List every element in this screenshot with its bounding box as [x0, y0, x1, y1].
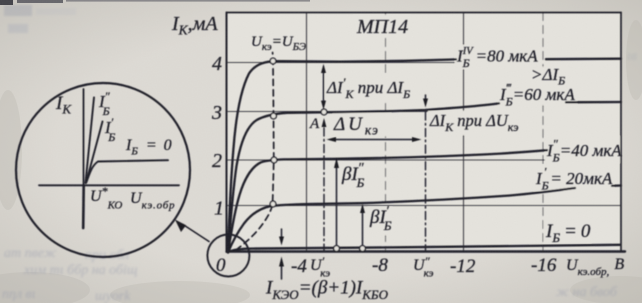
inset line Iб''	[86, 98, 95, 184]
marker circle base of бIб'	[360, 246, 366, 252]
gridline x=-16	[542, 13, 544, 252]
up arrow Iкэо below axis	[281, 266, 283, 279]
marker circle base of бIб''	[334, 246, 340, 252]
gridline x=-4	[306, 13, 308, 252]
axis frame right	[620, 13, 622, 252]
marker circle on 40мкА curve	[271, 157, 277, 163]
inset y axis	[83, 89, 85, 186]
scan top-edge marks	[0, 0, 13, 5]
magnifier big circle	[16, 83, 190, 257]
gridline y=2	[227, 159, 546, 161]
label background patches (interrupt gridlines)	[325, 15, 620, 243]
marker circle on 60мкА curve	[271, 113, 277, 119]
curve IБ'''=60мкА left part	[228, 103, 499, 252]
down arrow dIk at Uкэ''	[425, 95, 427, 100]
inset x axis	[39, 184, 179, 186]
curve IБ=0	[228, 245, 620, 252]
gridline y=4	[227, 62, 457, 64]
inset curve Iб=0	[87, 160, 169, 182]
pointer arrow from origin circle to magnifier	[183, 225, 209, 242]
marker circle on 20мкА curve	[270, 201, 276, 207]
arrowhead up to point A	[322, 118, 327, 127]
origin small circle	[207, 235, 249, 277]
arrow бIб' (up to 20мкА curve)	[362, 212, 364, 246]
axis frame top	[227, 12, 622, 14]
curve IБ'=20мкА right stub after label	[612, 184, 621, 187]
x axis	[227, 250, 626, 252]
dashed locus Uкэ=Uбэ	[236, 53, 274, 251]
inset line Iб'	[86, 122, 103, 184]
line at Uкэ' (dash-dot)	[323, 128, 325, 251]
y axis	[226, 13, 228, 253]
marker circle point A	[321, 109, 327, 115]
curve IБ''=40мкА	[228, 150, 547, 252]
gridline y=3	[227, 111, 498, 113]
down arrow Iкэо above axis	[281, 229, 283, 237]
gridline y=1	[227, 205, 622, 207]
curve IБ=80мкА left part	[228, 59, 456, 252]
marker circle on 80мкА curve	[270, 58, 276, 64]
curve IБ'=20мкА left part	[228, 188, 575, 253]
gridline x=-12	[463, 13, 465, 252]
curve IБ'''=60мкА right stub after label	[566, 101, 621, 104]
line at Uкэ'' (dash-dot)	[425, 112, 427, 251]
inset reverse-branch below axis	[82, 186, 85, 228]
arrow бIб'' (up to 40мкА curve)	[336, 167, 338, 246]
plot paper area	[227, 13, 621, 252]
curve IБ=80мкА right stub after label	[546, 58, 621, 61]
double arrow dIk' (between 80 and 60 curves)	[323, 70, 325, 103]
gridline x=-8	[385, 13, 387, 252]
double arrow dUкэ (horizontal)	[331, 139, 416, 141]
